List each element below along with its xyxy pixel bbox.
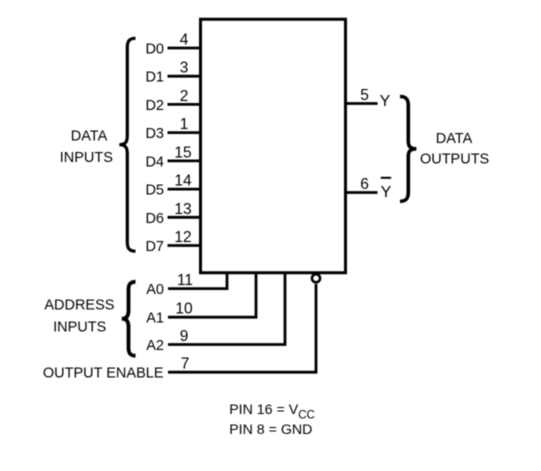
wire A0 pin 11 [168, 272, 227, 289]
wire A1 pin 10 [168, 272, 256, 317]
svg-text:5: 5 [360, 87, 369, 104]
svg-text:Y: Y [381, 184, 392, 201]
svg-text:D5: D5 [145, 183, 164, 199]
wire D7 [168, 244, 201, 247]
wire D6 [168, 216, 201, 219]
IC body U1 [201, 19, 346, 273]
brace address inputs [122, 282, 136, 356]
svg-text:15: 15 [174, 144, 191, 161]
brace data outputs [400, 97, 416, 202]
svg-text:2: 2 [180, 88, 189, 105]
svg-text:3: 3 [180, 60, 189, 77]
svg-text:13: 13 [174, 201, 191, 218]
svg-text:10: 10 [175, 301, 193, 318]
svg-text:D4: D4 [145, 154, 164, 170]
svg-text:OUTPUTS: OUTPUTS [420, 152, 489, 168]
svg-text:PIN 8 = GND: PIN 8 = GND [229, 422, 312, 438]
svg-text:6: 6 [360, 176, 369, 193]
svg-text:Y: Y [380, 93, 391, 110]
svg-text:12: 12 [174, 229, 191, 246]
svg-text:7: 7 [181, 356, 190, 373]
wire OUTPUT ENABLE pin 7 [168, 284, 316, 372]
wire A2 pin 9 [168, 272, 285, 345]
svg-text:D3: D3 [145, 126, 164, 142]
svg-text:A0: A0 [146, 282, 164, 298]
wire Y pin 5 [346, 102, 378, 105]
svg-text:DATA: DATA [71, 129, 108, 145]
svg-text:OUTPUT ENABLE: OUTPUT ENABLE [43, 365, 164, 381]
svg-text:A1: A1 [146, 311, 164, 327]
svg-text:11: 11 [177, 272, 193, 289]
svg-text:9: 9 [180, 328, 189, 345]
svg-text:D1: D1 [145, 70, 164, 86]
wire D1 [168, 75, 201, 78]
svg-text:1: 1 [180, 116, 189, 133]
wire D3 [168, 131, 201, 134]
wire D4 [168, 159, 201, 162]
wire D2 [168, 103, 201, 106]
svg-text:DATA: DATA [436, 131, 473, 147]
svg-text:INPUTS: INPUTS [60, 150, 113, 166]
svg-text:INPUTS: INPUTS [53, 320, 106, 336]
wire D0 [168, 47, 201, 50]
svg-text:ADDRESS: ADDRESS [44, 298, 114, 314]
svg-text:D7: D7 [145, 239, 164, 255]
svg-text:D6: D6 [145, 211, 164, 227]
svg-text:14: 14 [174, 173, 192, 190]
svg-text:PIN 16 = VCC: PIN 16 = VCC [229, 402, 315, 421]
wire D5 [168, 188, 201, 191]
svg-text:D2: D2 [145, 98, 164, 114]
overbar of Ybar [381, 177, 391, 179]
wire Ybar pin 6 [346, 191, 378, 194]
inverter bubble on OE [312, 274, 320, 282]
svg-text:4: 4 [180, 32, 189, 49]
svg-text:A2: A2 [146, 338, 164, 354]
svg-text:D0: D0 [145, 42, 164, 58]
brace data inputs [119, 38, 135, 251]
